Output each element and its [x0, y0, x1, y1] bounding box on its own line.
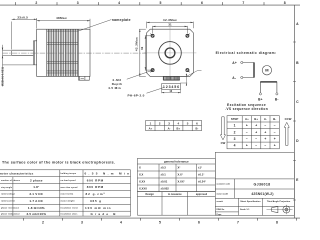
svg-text:Scale 1:1: Scale 1:1 [240, 209, 250, 211]
dimension 16 below pin box [162, 90, 181, 94]
shaft diameter dimension (left) [3, 45, 34, 87]
svg-text:5: 5 [159, 220, 161, 224]
schematic B terminals [259, 93, 261, 95]
svg-text:42SN01(W-2): 42SN01(W-2) [251, 192, 273, 196]
svg-text:phase resistance: phase resistance [1, 207, 20, 210]
svg-text:−: − [255, 144, 257, 148]
svg-text:+: + [274, 144, 276, 148]
svg-text:±1°: ±1° [198, 166, 202, 170]
CW arrow (left of step table) [220, 117, 225, 140]
svg-text:Excitation sequence: Excitation sequence [227, 103, 266, 107]
svg-text:100 mΩ min: 100 mΩ min [85, 206, 111, 210]
svg-text:+: + [246, 144, 248, 148]
svg-text:B-: B- [273, 117, 276, 121]
svg-text:2: 2 [35, 1, 37, 5]
svg-text:remark: remark [217, 201, 224, 203]
svg-text:step angle: step angle [1, 186, 13, 189]
small vertical dim right of connector [180, 71, 201, 86]
svg-text:X°: X° [178, 166, 181, 170]
svg-text:3: 3 [81, 220, 83, 224]
svg-text:6: 6 [198, 220, 200, 224]
svg-text:5: 5 [160, 1, 162, 5]
svg-text:23±0.5: 23±0.5 [17, 15, 28, 19]
svg-text:−: − [274, 130, 276, 134]
4-M3 depth note [108, 78, 122, 90]
svg-text:approved: approved [196, 193, 208, 196]
svg-text:31: 31 [140, 46, 144, 50]
svg-text:to issuance: to issuance [168, 193, 182, 196]
svg-text:max slew speed: max slew speed [61, 187, 79, 189]
svg-text:insulation resist: insulation resist [61, 207, 79, 210]
svg-text:+: + [264, 137, 266, 141]
svg-text:X: X [139, 166, 141, 170]
svg-text:+: + [255, 124, 257, 128]
svg-text:E: E [296, 178, 299, 182]
svg-text:holding torque: holding torque [61, 172, 77, 175]
right edge zone letters [296, 22, 299, 182]
svg-text:48Max: 48Max [56, 16, 67, 20]
svg-text:X.X°: X.X° [178, 173, 183, 177]
dimension 31 left (vertical) [145, 36, 151, 70]
svg-text:Electrical schematic diagram:: Electrical schematic diagram: [216, 51, 277, 55]
svg-text:phase inductance: phase inductance [1, 212, 21, 215]
svg-text:M: M [265, 68, 269, 73]
svg-text:8: 8 [284, 1, 286, 5]
step sequence table [227, 116, 279, 149]
front view: centerlines [144, 27, 197, 79]
svg-text:2: 2 [159, 122, 161, 126]
svg-text:Design: Design [146, 193, 155, 196]
svg-text:1: 1 [150, 122, 152, 126]
border frame right edge [293, 5, 295, 218]
svg-text:365 g: 365 g [90, 199, 101, 203]
connector below front view [163, 76, 180, 80]
front view: mounting holes [150, 34, 189, 73]
front view: square body [147, 29, 194, 76]
svg-text:42.3Max: 42.3Max [163, 18, 177, 22]
svg-text:customer code: customer code [217, 183, 230, 186]
svg-text:−: − [255, 137, 257, 141]
svg-text:Sheet Specification: Sheet Specification [240, 200, 261, 203]
side view: rotor hidden lines [47, 31, 79, 73]
svg-text:8: 8 [276, 220, 278, 224]
svg-text:The surface color of the motor: The surface color of the motor is black … [2, 161, 115, 165]
dimension 42.3Max left (vertical) [139, 29, 146, 76]
svg-text:±0.24°: ±0.24° [198, 180, 206, 184]
svg-text:motor characteristics: motor characteristics [0, 172, 34, 176]
svg-text:0.55 N.m Min: 0.55 N.m Min [85, 171, 130, 175]
title block labels [217, 183, 230, 216]
svg-text:no-load speed: no-load speed [61, 180, 77, 182]
svg-text:1.8°: 1.8° [33, 185, 40, 189]
svg-text:+: + [246, 124, 248, 128]
svg-text:GJ36018: GJ36018 [254, 182, 271, 186]
svg-text:A: A [296, 22, 299, 26]
svg-text:±0.3: ±0.3 [161, 166, 167, 170]
svg-text:4.5 Min: 4.5 Min [108, 86, 121, 90]
svg-text:3: 3 [168, 122, 170, 126]
side view: shaft [12, 50, 34, 56]
third angle projection symbol [267, 205, 293, 214]
svg-text:−: − [246, 130, 248, 134]
4-M3 leader [127, 70, 152, 79]
svg-text:A+: A+ [232, 61, 237, 65]
svg-text:4: 4 [118, 1, 120, 5]
svg-text:B+: B+ [254, 117, 258, 121]
svg-text:±0.1°: ±0.1° [198, 173, 204, 177]
characteristics right labels (tiny) [61, 172, 79, 215]
svg-text:CCW: CCW [285, 117, 292, 121]
svg-text:X.XXX: X.XXX [139, 187, 147, 191]
svg-text:−: − [246, 137, 248, 141]
svg-text:3: 3 [234, 137, 236, 141]
schematic A coil wire [243, 63, 254, 78]
nameplate leader [79, 20, 112, 31]
side view: motor body outline [37, 29, 90, 76]
dimension 48Max [37, 19, 90, 29]
characteristics left labels (tiny) [1, 180, 21, 216]
svg-text:X.XX°: X.XX° [178, 180, 185, 184]
svg-text:motor model: motor model [217, 192, 229, 195]
dimension 31 top [153, 26, 188, 34]
svg-text:1.8 Ω±10%: 1.8 Ω±10% [28, 206, 45, 210]
svg-text:6: 6 [196, 122, 198, 126]
svg-text:42.3Max: 42.3Max [135, 37, 139, 51]
svg-text:1.7 A DC: 1.7 A DC [29, 199, 43, 203]
svg-text:82 g.cm²: 82 g.cm² [86, 192, 105, 196]
svg-text:800 RPM: 800 RPM [87, 185, 104, 189]
border frame bottom ruler [0, 218, 300, 221]
svg-text:−: − [264, 124, 266, 128]
svg-text:2 phase: 2 phase [30, 178, 43, 182]
side view: rear cap line [77, 29, 79, 76]
svg-text:3: 3 [77, 1, 79, 5]
dimension 23±0.5 [12, 18, 37, 50]
svg-text:±0.002: ±0.002 [161, 187, 170, 191]
pin assignment table [146, 120, 202, 130]
svg-text:A-: A- [168, 127, 171, 131]
svg-text:motor weight: motor weight [61, 200, 75, 203]
svg-text:+: + [264, 130, 266, 134]
bottom ruler zone numbers [42, 220, 278, 224]
svg-text:2: 2 [42, 220, 44, 224]
side view: flange line [46, 29, 48, 76]
svg-text:Ø22h6(-0.021): Ø22h6(-0.021) [0, 67, 4, 86]
svg-text:X.X: X.X [139, 173, 144, 177]
side view: rear connector housing [79, 76, 90, 80]
design / approval strip [137, 192, 215, 216]
svg-text:123456: 123456 [163, 85, 179, 89]
centerline between views [3, 52, 147, 54]
motor characteristics table [0, 170, 131, 216]
svg-text:B-: B- [275, 98, 279, 102]
svg-text:−: − [274, 124, 276, 128]
svg-text:3.1 V DC: 3.1 V DC [29, 192, 43, 196]
svg-text:rotor inertia: rotor inertia [61, 193, 75, 196]
svg-text:X.XX: X.XX [139, 180, 145, 184]
svg-text:4: 4 [177, 122, 179, 126]
PH-6P leader [147, 88, 164, 94]
svg-text:A-: A- [232, 76, 236, 80]
svg-text:rated current: rated current [1, 200, 15, 203]
svg-text:A+: A+ [245, 117, 249, 121]
characteristics left values [27, 178, 47, 216]
svg-text:6: 6 [201, 1, 203, 5]
svg-text:7: 7 [237, 220, 239, 224]
svg-text:4: 4 [234, 144, 236, 148]
svg-text:.VS sequence direction: .VS sequence direction [225, 107, 268, 111]
svg-text:600 RPM: 600 RPM [87, 178, 104, 182]
svg-text:+: + [274, 137, 276, 141]
svg-text:5: 5 [187, 122, 189, 126]
svg-text:+: + [255, 130, 257, 134]
svg-text:Grade B: Grade B [91, 212, 117, 216]
svg-text:rated voltage: rated voltage [1, 193, 16, 196]
svg-text:DWG No.: DWG No. [217, 209, 226, 211]
svg-text:±0.1: ±0.1 [161, 173, 167, 177]
svg-text:B+: B+ [177, 127, 181, 131]
dimension 42.3Max top [147, 22, 194, 29]
svg-text:4: 4 [120, 220, 122, 224]
svg-text:D: D [296, 139, 299, 143]
svg-text:general tolerance: general tolerance [164, 160, 189, 164]
svg-text:7: 7 [242, 1, 244, 5]
svg-text:A+: A+ [149, 127, 153, 131]
svg-text:C: C [296, 100, 299, 104]
svg-text:B-: B- [195, 127, 198, 131]
pin numbers box [162, 84, 181, 90]
border frame top ruler [0, 2, 300, 5]
schematic B coil wire [260, 82, 277, 93]
svg-text:B+: B+ [258, 98, 263, 102]
svg-text:insulation class: insulation class [61, 212, 79, 215]
title block [215, 152, 294, 215]
side view: stack hatch [47, 29, 79, 76]
svg-text:−: − [264, 144, 266, 148]
svg-text:nameplate: nameplate [112, 18, 131, 22]
svg-text:1: 1 [234, 124, 236, 128]
svg-text:PH-6P-2.0: PH-6P-2.0 [128, 94, 145, 98]
side view: pilot boss [33, 41, 36, 65]
svg-text:Third Angle Projection: Third Angle Projection [267, 200, 291, 203]
svg-text:A-: A- [264, 117, 267, 121]
svg-text:number of phases: number of phases [1, 180, 21, 182]
svg-text:STEP: STEP [231, 117, 239, 121]
svg-text:±0.01: ±0.01 [161, 180, 168, 184]
svg-text:2: 2 [234, 130, 236, 134]
svg-text:Page:: Page: [217, 214, 223, 216]
top ruler zone numbers [35, 1, 285, 5]
general tolerance table [137, 158, 215, 191]
svg-text:B: B [296, 61, 299, 65]
front view: center circles [159, 42, 182, 65]
motor M circle [262, 66, 271, 75]
svg-text:31: 31 [168, 23, 172, 27]
characteristics right values [85, 171, 130, 216]
svg-text:3.5 mH±10%: 3.5 mH±10% [27, 212, 47, 216]
svg-text:CW: CW [221, 141, 226, 145]
